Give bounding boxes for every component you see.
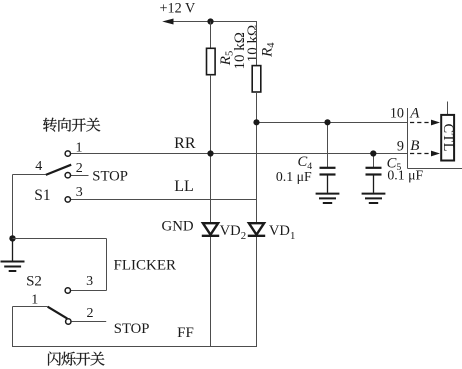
svg-text:STOP: STOP [114, 321, 150, 337]
switch S1 blade [46, 165, 71, 175]
diode VD2 [202, 223, 219, 236]
svg-text:2: 2 [76, 161, 83, 176]
svg-text:4: 4 [35, 159, 42, 174]
wire S1 contact2 stub [71, 175, 89, 177]
wire flicker loop top [13, 238, 107, 240]
svg-text:1: 1 [31, 293, 38, 308]
label: turn switch (Chinese) [43, 118, 100, 132]
switch S1 contact 3 [65, 197, 70, 202]
dashed arrow A to CTL [410, 120, 440, 126]
wire S2 pole down to FF [12, 307, 14, 348]
switch S2 blade [48, 307, 68, 319]
wire RR net [71, 153, 408, 155]
CTL block top stub wire [447, 102, 449, 115]
wire S1 pole to ground [12, 175, 14, 239]
switch S2 pole wire [13, 306, 48, 308]
capacitor C5 top wire [373, 154, 375, 168]
svg-text:LL: LL [174, 178, 194, 195]
switch S2 contact 2 [66, 319, 71, 324]
node: RR/R5 junction dot [207, 150, 213, 156]
svg-text:B: B [410, 138, 419, 154]
wire R4 branch vertical upper [256, 21, 258, 66]
svg-text:2: 2 [87, 306, 94, 321]
svg-text:0.1 μF: 0.1 μF [276, 169, 312, 184]
diode VD1 [248, 223, 265, 236]
svg-text:9: 9 [397, 139, 404, 155]
switch S1 contact 2 [65, 173, 70, 178]
svg-text:S2: S2 [26, 274, 42, 290]
svg-text:+12 V: +12 V [160, 1, 196, 17]
node: C5/B junction dot [370, 150, 376, 156]
svg-text:10: 10 [390, 106, 404, 122]
label: flicker switch (Chinese) [48, 352, 104, 366]
capacitor C4 top wire [327, 123, 329, 168]
node A line (pin 10) wire [257, 122, 408, 124]
wire flicker loop right vertical [106, 239, 108, 291]
capacitor C4 ground wire [327, 175, 329, 193]
connector boundary bottom line [408, 168, 462, 170]
svg-text:0.1 μF: 0.1 μF [387, 168, 423, 183]
svg-text:A: A [409, 105, 420, 121]
capacitor C5 ground wire [373, 175, 375, 193]
svg-text:CTL: CTL [440, 124, 456, 152]
svg-text:RR: RR [174, 135, 196, 152]
svg-text:1: 1 [76, 140, 83, 155]
switch S1 contact 1 [65, 151, 70, 156]
node: C4/A junction dot [324, 119, 330, 125]
wire S2 contact2 stub [72, 321, 107, 323]
resistor R4 body [252, 66, 261, 92]
ground symbol (C5) [362, 194, 386, 203]
node: rail junction dot [207, 18, 213, 24]
svg-text:STOP: STOP [92, 168, 128, 184]
dashed arrow B to CTL [410, 151, 440, 157]
node: R4/A junction dot [253, 119, 259, 125]
wire FF bottom net [13, 346, 258, 348]
wire R5 branch vertical [210, 22, 212, 49]
wire R4/VD1 column [256, 92, 258, 347]
resistor R5 body [207, 48, 216, 74]
wire R5/VD2 column [210, 75, 212, 347]
switch S2 contact 3 [65, 288, 70, 293]
op-amp/controller block CTL [441, 115, 454, 161]
ground symbol (left) [1, 238, 25, 271]
capacitor C4 plates [320, 168, 336, 175]
svg-text:3: 3 [86, 274, 93, 289]
svg-text:3: 3 [76, 185, 83, 200]
svg-text:FLICKER: FLICKER [114, 258, 177, 274]
svg-text:FF: FF [177, 325, 194, 341]
svg-text:GND: GND [162, 218, 194, 234]
connector boundary vertical line [407, 108, 409, 169]
+12V rail wire with arrow [162, 19, 256, 25]
wire flicker loop bottom to contact 3 [71, 290, 107, 292]
wire LL net [71, 199, 257, 201]
node: ground junction dot [9, 235, 15, 241]
capacitor C5 plates [366, 168, 382, 175]
switch S1 pole wire [13, 174, 46, 176]
ground symbol (C4) [316, 194, 340, 203]
svg-text:S1: S1 [34, 187, 50, 204]
